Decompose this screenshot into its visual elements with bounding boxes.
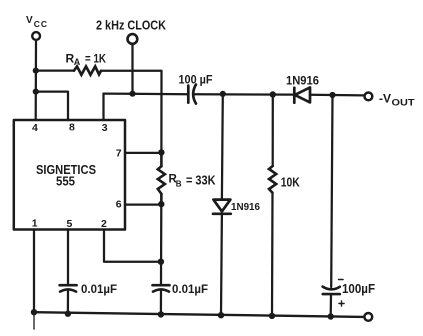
ground rail terminal — [364, 313, 372, 321]
svg-text:2: 2 — [101, 218, 107, 230]
node VCC / RA junction — [33, 68, 39, 74]
wire RB junction down to C2 — [160, 204, 163, 284]
svg-text:-V: -V — [379, 92, 391, 106]
svg-text:B: B — [176, 179, 182, 188]
resistor RB 33K — [158, 152, 165, 204]
label 2 kHz CLOCK — [96, 18, 167, 33]
label 0.01uF (C2) — [172, 282, 208, 296]
ground rail — [34, 312, 363, 317]
wire pin 3 riser — [102, 94, 104, 120]
wire pin 2 elbow — [104, 230, 161, 262]
svg-text:A: A — [74, 57, 81, 67]
svg-text:CC: CC — [34, 19, 48, 29]
pin number 5 — [67, 218, 73, 230]
diode D2 1N916 — [213, 200, 231, 214]
label 100 uF — [179, 73, 213, 87]
pin number 3 — [102, 122, 108, 134]
svg-text:2 kHz CLOCK: 2 kHz CLOCK — [96, 18, 167, 33]
pin number 2 — [101, 218, 107, 230]
node ground / D2 — [218, 312, 224, 318]
svg-text:= 33K: = 33K — [186, 173, 216, 187]
wire rail to C4 — [331, 95, 332, 287]
wire C2 to ground — [160, 290, 162, 315]
node pin 7 / RB junction — [158, 149, 164, 155]
pin number 1 — [32, 218, 38, 230]
pin number 8 — [69, 122, 75, 134]
wire D2 to ground — [220, 214, 223, 315]
input terminal 2 kHz CLOCK — [127, 34, 137, 44]
node D2 column junction — [220, 91, 226, 97]
svg-text:0.01µF: 0.01µF — [81, 282, 117, 296]
node ground / C2 — [158, 311, 164, 317]
label VCC — [26, 15, 48, 29]
svg-text:6: 6 — [116, 198, 122, 210]
svg-text:100µF: 100µF — [342, 281, 375, 296]
wire pin 6 — [125, 203, 161, 205]
output terminal -VOUT — [365, 93, 373, 101]
wire C4 to ground — [330, 294, 333, 316]
label RB = 33K — [169, 173, 216, 188]
node output cap junction — [329, 92, 335, 98]
wire junction to pin 8 — [36, 92, 68, 120]
svg-text:1: 1 — [32, 218, 38, 230]
svg-text:0.01µF: 0.01µF — [172, 282, 208, 296]
diode D1 1N916 — [294, 87, 310, 102]
svg-text:OUT: OUT — [392, 98, 416, 108]
svg-text:1N916: 1N916 — [231, 202, 260, 213]
wire VCC terminal down to pin 4 — [35, 41, 38, 120]
resistor RA 1K — [74, 66, 101, 74]
capacitor C3 100uF — [188, 85, 196, 104]
label 10K — [281, 176, 300, 190]
wire RA right lead down to pin 7 row — [101, 71, 162, 153]
wire top rail pin 3 to C3 — [104, 92, 189, 95]
svg-text:100 µF: 100 µF — [179, 73, 213, 87]
label 100uF (C4) — [342, 281, 375, 296]
power terminal VCC — [32, 32, 40, 40]
node clock junction — [129, 91, 135, 97]
node ground / 10K — [269, 313, 275, 319]
wire 10K to ground — [271, 193, 274, 316]
wire pin 1 down — [33, 230, 35, 313]
wire D1 to output terminal — [310, 94, 363, 97]
node VCC / pin 8 junction — [33, 89, 39, 95]
svg-text:1N916: 1N916 — [286, 73, 319, 87]
svg-text:= 1K: = 1K — [85, 52, 106, 66]
capacitor C2 0.01uF — [153, 285, 170, 291]
label RA = 1K — [66, 52, 107, 67]
capacitor C4 100uF — [323, 287, 340, 295]
wire C1 to ground — [67, 290, 69, 314]
pin number 6 — [116, 198, 122, 210]
node ground / C1 — [65, 311, 71, 317]
svg-text:10K: 10K — [281, 176, 300, 190]
wire RA left lead — [36, 69, 74, 71]
wire clock terminal down to rail — [131, 44, 133, 94]
node pin 2 junction — [158, 259, 164, 265]
wire pin 5 down to C1 — [67, 230, 69, 285]
label 0.01uF (C1) — [81, 282, 117, 296]
pin number 4 — [32, 122, 38, 134]
svg-text:8: 8 — [69, 122, 75, 134]
capacitor C1 0.01uF — [60, 285, 77, 291]
label SIGNETICS 555 — [36, 162, 96, 189]
wire rail to 10K — [272, 95, 274, 167]
label C4 polarity minus — [339, 279, 343, 281]
label 1N916 (D2) — [231, 202, 260, 213]
svg-text:3: 3 — [102, 122, 108, 134]
node pin 6 / RB junction — [158, 201, 164, 207]
wire pin 7 — [125, 152, 161, 154]
svg-text:7: 7 — [116, 147, 122, 159]
resistor R3 10K — [269, 166, 276, 193]
wire C3 to diode D1 — [195, 93, 294, 96]
ground stub below pin 1 — [33, 312, 35, 329]
node 10K column junction — [270, 91, 276, 97]
node ground / pin 1 — [31, 309, 37, 315]
wire rail to diode D2 — [221, 94, 224, 199]
svg-text:4: 4 — [32, 122, 38, 134]
label 1N916 (D1) — [286, 73, 319, 87]
label C4 polarity plus — [339, 301, 344, 306]
node ground / C4 — [328, 313, 334, 319]
svg-text:V: V — [26, 15, 33, 26]
svg-text:5: 5 — [67, 218, 73, 230]
pin number 7 — [116, 147, 122, 159]
IC U1 SIGNETICS 555 — [14, 120, 125, 230]
label -VOUT — [379, 92, 415, 108]
svg-text:555: 555 — [56, 175, 75, 189]
